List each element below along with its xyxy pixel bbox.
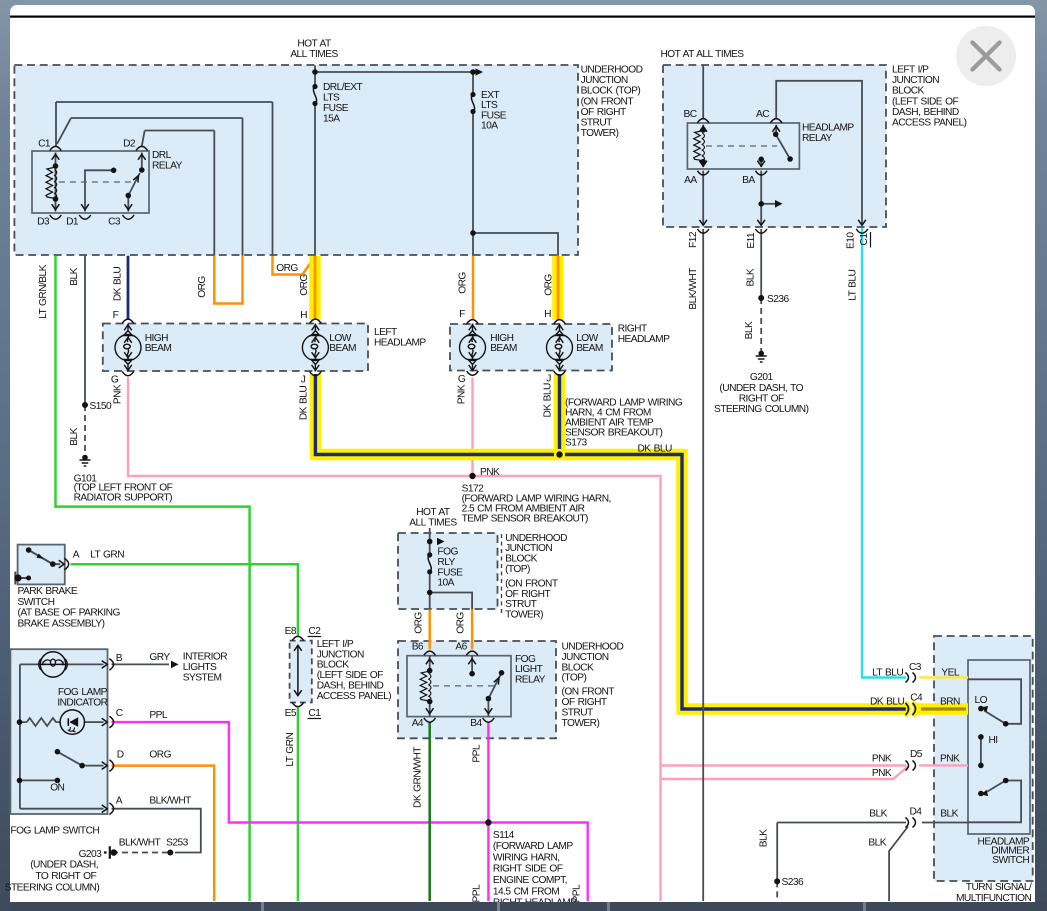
svg-text:LTS: LTS: [323, 93, 340, 104]
svg-text:C4: C4: [910, 693, 923, 704]
svg-text:BLK/WHT: BLK/WHT: [688, 268, 699, 310]
svg-text:S236: S236: [767, 294, 789, 305]
svg-text:TOWER): TOWER): [505, 610, 543, 621]
svg-text:BEAM: BEAM: [576, 343, 603, 354]
svg-text:ORG: ORG: [299, 274, 310, 296]
svg-text:S253: S253: [166, 838, 188, 849]
svg-text:BLK: BLK: [744, 321, 755, 339]
svg-text:ON: ON: [50, 783, 64, 794]
svg-text:FOG: FOG: [437, 546, 458, 557]
svg-text:UNDERHOOD: UNDERHOOD: [581, 65, 643, 76]
svg-text:PNK: PNK: [112, 384, 123, 404]
svg-text:J: J: [301, 375, 306, 386]
svg-text:H: H: [300, 310, 307, 321]
svg-text:10A: 10A: [437, 578, 454, 589]
svg-text:A4: A4: [412, 718, 424, 729]
svg-text:WIRING HARN,: WIRING HARN,: [493, 852, 560, 863]
svg-text:F: F: [113, 310, 119, 321]
svg-text:15A: 15A: [323, 114, 340, 125]
svg-text:HEADLAMP: HEADLAMP: [802, 123, 854, 134]
svg-text:RIGHT SIDE OF: RIGHT SIDE OF: [493, 864, 563, 875]
svg-text:AA: AA: [684, 175, 697, 186]
svg-text:PPL: PPL: [471, 884, 482, 902]
svg-text:BLK: BLK: [940, 809, 958, 820]
svg-text:J: J: [546, 374, 551, 385]
svg-text:(ON FRONT: (ON FRONT: [581, 96, 634, 107]
svg-text:STRUT: STRUT: [562, 708, 594, 719]
svg-text:STEERING COLUMN): STEERING COLUMN): [5, 882, 100, 893]
svg-text:LT GRN: LT GRN: [285, 733, 296, 767]
svg-text:BLK: BLK: [69, 427, 80, 445]
svg-text:(UNDER DASH, TO: (UNDER DASH, TO: [719, 383, 803, 394]
svg-text:D5: D5: [910, 749, 923, 760]
svg-text:HOT AT ALL TIMES: HOT AT ALL TIMES: [660, 49, 744, 60]
svg-text:FOG LAMP SWITCH: FOG LAMP SWITCH: [10, 825, 99, 836]
svg-text:JUNCTION: JUNCTION: [581, 75, 628, 86]
svg-text:RIGHT: RIGHT: [618, 324, 647, 335]
svg-text:LTS: LTS: [481, 100, 498, 111]
svg-text:BLOCK: BLOCK: [562, 662, 595, 673]
svg-text:(ON FRONT: (ON FRONT: [505, 578, 558, 589]
svg-text:C2: C2: [308, 626, 321, 637]
svg-text:JUNCTION: JUNCTION: [317, 649, 364, 660]
svg-text:LT BLU: LT BLU: [848, 269, 859, 300]
svg-text:LT GRN/BLK: LT GRN/BLK: [38, 264, 49, 319]
svg-text:BLK/WHT: BLK/WHT: [149, 796, 191, 807]
svg-text:(UNDER DASH,: (UNDER DASH,: [30, 860, 98, 871]
svg-text:BRAKE ASSEMBLY): BRAKE ASSEMBLY): [18, 619, 105, 630]
svg-text:TO RIGHT OF: TO RIGHT OF: [35, 871, 96, 882]
svg-text:A: A: [116, 796, 123, 807]
svg-text:ORG: ORG: [414, 612, 425, 634]
svg-text:E10: E10: [845, 232, 856, 249]
svg-text:(TOP): (TOP): [562, 673, 587, 684]
svg-text:ORG: ORG: [276, 263, 298, 274]
svg-text:G: G: [111, 375, 119, 386]
svg-text:RELAY: RELAY: [802, 133, 833, 144]
svg-text:S236: S236: [782, 877, 804, 888]
svg-text:C3: C3: [909, 662, 922, 673]
svg-text:BLK: BLK: [745, 268, 756, 286]
svg-text:LT GRN: LT GRN: [90, 550, 124, 561]
svg-text:TOWER): TOWER): [581, 128, 619, 139]
svg-text:LEFT I/P: LEFT I/P: [892, 65, 929, 76]
svg-text:D3: D3: [37, 217, 50, 228]
svg-text:JUNCTION: JUNCTION: [505, 543, 552, 554]
svg-text:DRL/EXT: DRL/EXT: [323, 82, 363, 93]
svg-text:BEAM: BEAM: [145, 343, 172, 354]
svg-text:DK BLU: DK BLU: [299, 386, 310, 420]
svg-text:PPL: PPL: [471, 744, 482, 762]
svg-text:A6: A6: [455, 642, 467, 653]
svg-text:BRN: BRN: [940, 697, 960, 708]
svg-text:E8: E8: [285, 626, 297, 637]
svg-text:G203: G203: [79, 849, 103, 860]
svg-text:14.5 CM FROM: 14.5 CM FROM: [493, 886, 559, 897]
svg-text:D2: D2: [123, 139, 136, 150]
svg-text:UNDERHOOD: UNDERHOOD: [562, 642, 624, 653]
svg-text:BLOCK: BLOCK: [505, 554, 538, 565]
svg-text:E11: E11: [746, 232, 757, 249]
svg-text:TURN SIGNAL/: TURN SIGNAL/: [966, 882, 1032, 893]
svg-text:DK BLU: DK BLU: [638, 444, 672, 455]
svg-text:LT BLU: LT BLU: [872, 668, 903, 679]
svg-text:BLOCK: BLOCK: [317, 660, 350, 671]
svg-text:LO: LO: [975, 695, 988, 706]
svg-text:BLK: BLK: [869, 809, 887, 820]
svg-text:SWITCH: SWITCH: [992, 855, 1029, 866]
svg-text:D1: D1: [66, 217, 79, 228]
svg-text:BLOCK (TOP): BLOCK (TOP): [581, 86, 641, 97]
svg-text:B: B: [116, 653, 123, 664]
svg-text:FUSE: FUSE: [323, 103, 349, 114]
svg-text:(ON FRONT: (ON FRONT: [562, 687, 615, 698]
svg-text:DK BLU: DK BLU: [870, 697, 904, 708]
svg-text:YEL: YEL: [941, 668, 959, 679]
svg-text:HI: HI: [989, 735, 998, 746]
svg-text:PPL: PPL: [149, 710, 167, 721]
svg-text:BLK: BLK: [759, 829, 770, 847]
svg-text:RELAY: RELAY: [515, 675, 546, 686]
svg-text:S173: S173: [565, 438, 587, 449]
svg-text:SWITCH: SWITCH: [18, 597, 55, 608]
svg-text:BEAM: BEAM: [329, 343, 356, 354]
svg-text:ALL TIMES: ALL TIMES: [290, 49, 338, 60]
svg-text:HEADLAMP: HEADLAMP: [618, 334, 670, 345]
svg-text:DASH, BEHIND: DASH, BEHIND: [317, 681, 384, 692]
svg-text:DK BLU: DK BLU: [542, 383, 553, 417]
svg-text:C1: C1: [38, 139, 51, 150]
svg-text:S114: S114: [493, 830, 515, 841]
svg-text:F: F: [459, 309, 465, 320]
svg-text:PNK: PNK: [480, 467, 500, 478]
svg-text:ORG: ORG: [149, 750, 171, 761]
svg-text:FOG LAMP: FOG LAMP: [58, 687, 108, 698]
svg-text:ORG: ORG: [456, 612, 467, 634]
svg-text:BLK: BLK: [69, 267, 80, 285]
svg-text:RIGHT OF: RIGHT OF: [739, 394, 784, 405]
svg-text:UNDERHOOD: UNDERHOOD: [505, 533, 567, 544]
svg-text:S150: S150: [90, 401, 112, 412]
svg-text:E5: E5: [285, 708, 297, 719]
svg-text:HOT AT: HOT AT: [416, 507, 450, 518]
svg-text:OF RIGHT: OF RIGHT: [581, 107, 626, 118]
svg-text:BA: BA: [742, 175, 755, 186]
svg-text:ORG: ORG: [544, 274, 555, 296]
svg-text:STRUT: STRUT: [505, 599, 537, 610]
svg-text:SYSTEM: SYSTEM: [183, 672, 222, 683]
svg-text:A: A: [73, 550, 80, 561]
svg-text:LEFT I/P: LEFT I/P: [317, 639, 354, 650]
svg-text:INTERIOR: INTERIOR: [183, 651, 227, 662]
svg-text:JUNCTION: JUNCTION: [892, 75, 939, 86]
svg-text:PNK: PNK: [940, 754, 960, 765]
svg-text:(TOP): (TOP): [505, 564, 530, 575]
svg-text:BLOCK: BLOCK: [892, 86, 925, 97]
svg-text:RADIATOR SUPPORT): RADIATOR SUPPORT): [74, 493, 173, 504]
svg-text:ORG: ORG: [458, 272, 469, 294]
svg-text:BLK: BLK: [868, 838, 886, 849]
svg-text:HOT AT: HOT AT: [297, 39, 331, 50]
svg-text:ENGINE COMPT,: ENGINE COMPT,: [493, 875, 567, 886]
svg-text:AC: AC: [756, 109, 769, 120]
svg-text:ACCESS PANEL): ACCESS PANEL): [317, 691, 392, 702]
svg-text:TEMP SENSOR BREAKOUT): TEMP SENSOR BREAKOUT): [462, 514, 588, 525]
svg-text:G201: G201: [750, 372, 774, 383]
svg-text:DK GRN/WHT: DK GRN/WHT: [413, 747, 424, 808]
svg-text:G: G: [458, 374, 466, 385]
svg-text:ORG: ORG: [197, 276, 208, 298]
svg-text:DRL: DRL: [152, 150, 172, 161]
svg-text:ACCESS PANEL): ACCESS PANEL): [892, 117, 967, 128]
svg-text:OF RIGHT: OF RIGHT: [505, 589, 550, 600]
svg-text:STEERING COLUMN): STEERING COLUMN): [714, 404, 809, 415]
svg-text:BEAM: BEAM: [490, 343, 517, 354]
svg-text:TOWER): TOWER): [562, 718, 600, 729]
svg-text:C3: C3: [108, 217, 121, 228]
svg-text:C: C: [116, 708, 123, 719]
svg-text:ALL TIMES: ALL TIMES: [409, 517, 457, 528]
svg-text:LIGHT: LIGHT: [515, 664, 543, 675]
svg-text:(LEFT SIDE OF: (LEFT SIDE OF: [317, 670, 383, 681]
svg-text:DASH, BEHIND: DASH, BEHIND: [892, 107, 959, 118]
svg-text:STRUT: STRUT: [581, 117, 613, 128]
svg-text:FUSE: FUSE: [437, 567, 463, 578]
svg-text:OF RIGHT: OF RIGHT: [562, 697, 607, 708]
svg-text:(AT BASE OF PARKING: (AT BASE OF PARKING: [18, 608, 121, 619]
svg-text:D: D: [117, 750, 124, 761]
svg-text:PNK: PNK: [872, 754, 892, 765]
svg-text:DK BLU: DK BLU: [112, 267, 123, 301]
svg-text:B4: B4: [470, 718, 482, 729]
svg-text:C1: C1: [859, 233, 870, 246]
svg-text:F12: F12: [688, 231, 699, 248]
svg-text:D4: D4: [910, 806, 923, 817]
svg-text:GRY: GRY: [149, 652, 170, 663]
svg-text:LEFT: LEFT: [374, 327, 397, 338]
svg-text:BC: BC: [684, 109, 697, 120]
svg-text:H: H: [544, 309, 551, 320]
svg-text:(FORWARD LAMP: (FORWARD LAMP: [493, 841, 573, 852]
svg-text:(LEFT SIDE OF: (LEFT SIDE OF: [892, 96, 958, 107]
svg-text:RLY: RLY: [437, 557, 455, 568]
svg-text:10A: 10A: [481, 121, 498, 132]
svg-text:PNK: PNK: [456, 384, 467, 404]
svg-text:B6: B6: [412, 642, 424, 653]
svg-text:LIGHTS: LIGHTS: [183, 662, 217, 673]
svg-text:PARK BRAKE: PARK BRAKE: [18, 586, 78, 597]
svg-text:PNK: PNK: [872, 768, 892, 779]
svg-text:C1: C1: [308, 708, 321, 719]
svg-text:INDICATOR: INDICATOR: [57, 697, 107, 708]
svg-text:HEADLAMP: HEADLAMP: [374, 337, 426, 348]
svg-text:BLK/WHT: BLK/WHT: [119, 838, 161, 849]
svg-text:RELAY: RELAY: [152, 161, 183, 172]
